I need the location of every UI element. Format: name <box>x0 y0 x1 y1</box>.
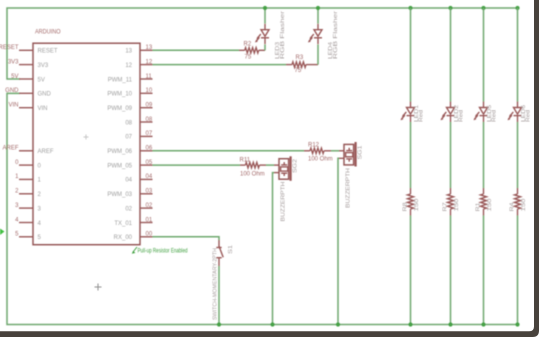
svg-text:5V: 5V <box>38 77 45 83</box>
pin AREF (left) <box>2 146 53 156</box>
svg-text:PWM_09: PWM_09 <box>107 106 132 112</box>
resistor R7 <box>448 188 454 216</box>
svg-text:100 Ohm: 100 Ohm <box>308 157 333 163</box>
wire R7 to GND rail <box>450 216 452 325</box>
wire R12 to SG1 <box>331 150 339 152</box>
resistor R3 <box>286 62 318 67</box>
svg-text:150: 150 <box>487 199 493 212</box>
net marker (left edge) <box>0 229 5 236</box>
wire LED6 to R4 <box>517 122 519 188</box>
wire LED5 to R1 <box>483 122 485 188</box>
svg-text:12: 12 <box>146 59 153 65</box>
pin 11 (right) <box>108 74 153 84</box>
wire SG2 to GND rail <box>273 173 275 325</box>
svg-text:AREF: AREF <box>38 149 54 155</box>
svg-text:08: 08 <box>146 117 153 123</box>
svg-text:150: 150 <box>414 199 420 212</box>
svg-text:RGB Flasher: RGB Flasher <box>333 11 339 59</box>
wire R1 to GND rail <box>483 216 485 325</box>
svg-text:04: 04 <box>146 174 153 180</box>
svg-text:R3: R3 <box>296 55 304 61</box>
svg-text:AREF: AREF <box>2 146 18 152</box>
junction R7 gnd <box>448 322 452 326</box>
pin 3 (left) <box>15 203 41 213</box>
wire rail to LED5 <box>483 8 485 102</box>
pin 1 (left) <box>15 174 41 184</box>
pin 05 (right) <box>107 160 153 170</box>
LED LED6 <box>508 102 522 123</box>
pin 01 (right) <box>114 217 153 227</box>
resistor R2 <box>239 48 265 53</box>
wire 5V rail <box>7 8 518 79</box>
wire LED2 to R7 <box>450 122 452 188</box>
svg-text:BUZZERPTH: BUZZERPTH <box>346 168 352 208</box>
junction SG1 gnd <box>336 322 340 326</box>
svg-text:PWM_06: PWM_06 <box>107 149 132 155</box>
svg-text:75: 75 <box>295 68 302 74</box>
wire pin06 to R12 <box>153 150 305 152</box>
pin 4 (left) <box>15 217 41 227</box>
svg-text:GND: GND <box>5 88 19 94</box>
wire R8 to GND rail <box>410 216 412 325</box>
svg-text:3V3: 3V3 <box>38 63 49 69</box>
IC ARDUINO body <box>33 43 140 245</box>
pin 3V3 (left) <box>8 59 49 69</box>
switch S1 <box>216 240 223 266</box>
wire pin13 to R2 <box>153 49 240 51</box>
svg-text:RGB Flasher: RGB Flasher <box>280 11 286 59</box>
junction LED4 rail <box>316 6 320 10</box>
svg-text:11: 11 <box>146 74 153 80</box>
svg-text:Red: Red <box>459 110 465 122</box>
wire S1 to GND rail <box>218 266 220 325</box>
svg-text:04: 04 <box>125 178 132 184</box>
junction R1 gnd <box>481 322 485 326</box>
LED LED5 <box>474 102 488 123</box>
svg-text:3V3: 3V3 <box>8 59 19 65</box>
svg-text:13: 13 <box>146 45 153 51</box>
pin 5V (left) <box>11 74 45 84</box>
wire R2 to LED3 <box>264 45 266 51</box>
LED LED2 <box>441 102 455 123</box>
junction LED5 rail <box>481 6 485 10</box>
junction SG2 gnd <box>270 322 274 326</box>
pin 03 (right) <box>107 189 153 199</box>
svg-text:RX_00: RX_00 <box>114 235 133 241</box>
svg-text:R11: R11 <box>240 157 251 163</box>
svg-text:R12: R12 <box>308 143 320 149</box>
svg-text:03: 03 <box>146 189 153 195</box>
svg-text:PWM_05: PWM_05 <box>107 163 132 169</box>
svg-text:00: 00 <box>146 232 153 238</box>
svg-text:R8: R8 <box>402 203 408 212</box>
svg-text:02: 02 <box>146 203 153 209</box>
wire SG1 to GND rail <box>338 158 339 324</box>
wire rail to LED2 <box>450 8 452 102</box>
svg-text:07: 07 <box>146 131 153 137</box>
wire rail to LED6 <box>517 8 519 102</box>
svg-text:R2: R2 <box>244 42 252 48</box>
svg-text:VIN: VIN <box>38 106 48 112</box>
resistor R4 <box>515 188 521 216</box>
svg-text:BUZZERPTH: BUZZERPTH <box>281 181 287 221</box>
wire R4 to GND rail <box>517 216 519 325</box>
pin 09 (right) <box>107 103 153 113</box>
wire LED4 to rail <box>317 8 319 24</box>
junction LED2 rail <box>448 6 452 10</box>
buzzer SG1 <box>339 142 356 167</box>
svg-text:150: 150 <box>454 199 460 212</box>
svg-text:13: 13 <box>125 49 132 55</box>
svg-text:150: 150 <box>521 199 527 212</box>
pin 10 (right) <box>107 88 153 98</box>
wire R3 to LED4 <box>317 45 319 65</box>
svg-text:R4: R4 <box>509 203 515 212</box>
svg-text:07: 07 <box>125 135 132 141</box>
svg-text:S1: S1 <box>228 245 234 254</box>
svg-text:100 Ohm: 100 Ohm <box>240 171 265 177</box>
junction S1 gnd <box>217 322 221 326</box>
pin 13 (right) <box>125 45 153 55</box>
svg-text:05: 05 <box>146 160 153 166</box>
svg-text:5V: 5V <box>11 74 18 80</box>
pin 08 (right) <box>125 117 153 127</box>
pin VIN (left) <box>8 103 47 113</box>
svg-text:SG2: SG2 <box>293 159 299 173</box>
LED LED3 <box>255 24 269 45</box>
svg-text:VIN: VIN <box>8 103 18 109</box>
svg-text:75: 75 <box>245 55 252 61</box>
junction LED3 rail <box>263 6 267 10</box>
svg-text:Pull-up Resistor Enabled: Pull-up Resistor Enabled <box>138 247 188 254</box>
wire rail to LED1 <box>410 8 412 102</box>
LED LED1 <box>401 102 415 123</box>
pin 12 (right) <box>125 59 153 69</box>
wire pin00 to S1 <box>153 237 220 240</box>
svg-text:02: 02 <box>125 206 132 212</box>
svg-text:06: 06 <box>146 146 153 152</box>
pin 0 (left) <box>15 160 41 170</box>
pin 00 (right) <box>114 232 153 242</box>
junction R8 gnd <box>408 322 412 326</box>
svg-text:PWM_11: PWM_11 <box>108 77 133 83</box>
wire GND rail <box>7 93 518 324</box>
wire LED3 to rail <box>264 8 266 24</box>
resistor R12 <box>304 148 331 153</box>
svg-text:Red: Red <box>526 110 532 122</box>
pin 07 (right) <box>125 131 153 141</box>
svg-text:Red: Red <box>492 110 498 122</box>
buzzer SG2 <box>274 156 291 181</box>
origin cross (IC) <box>84 135 89 140</box>
wire R11 to SG2 <box>266 164 274 166</box>
origin cross (S1) <box>95 284 102 291</box>
wire LED1 to R8 <box>410 122 412 188</box>
junction LED6 rail <box>515 6 519 10</box>
pin 02 (right) <box>125 203 153 213</box>
svg-text:SWITCH-MOMENTARY-2PTH: SWITCH-MOMENTARY-2PTH <box>213 248 219 320</box>
annotation arrow <box>132 247 137 254</box>
wire pin05 to R11 <box>153 164 241 166</box>
svg-text:PWM_10: PWM_10 <box>107 92 132 98</box>
pin 06 (right) <box>107 146 153 156</box>
svg-text:12: 12 <box>125 63 132 69</box>
wire pin12 to R3 <box>153 64 287 66</box>
svg-text:R1: R1 <box>475 203 481 212</box>
svg-text:Red: Red <box>419 110 425 122</box>
pin 2 (left) <box>15 189 41 199</box>
pin GND (left) <box>5 88 51 98</box>
svg-text:08: 08 <box>125 120 132 126</box>
svg-text:GND: GND <box>38 92 52 98</box>
pin 5 (left) <box>15 232 41 242</box>
svg-text:10: 10 <box>146 88 153 94</box>
LED LED4 <box>308 24 322 45</box>
svg-text:TX_01: TX_01 <box>114 221 132 227</box>
junction R4 gnd <box>515 322 519 326</box>
svg-text:R7: R7 <box>442 203 448 212</box>
svg-text:01: 01 <box>146 217 153 223</box>
svg-text:09: 09 <box>146 103 153 109</box>
resistor R11 <box>240 162 266 167</box>
pin RESET (left) <box>0 45 58 55</box>
resistor R8 <box>408 188 414 216</box>
pin 04 (right) <box>125 174 153 184</box>
svg-text:RESET: RESET <box>0 45 19 51</box>
resistor R1 <box>481 188 487 216</box>
junction LED1 rail <box>408 6 412 10</box>
svg-text:SG1: SG1 <box>358 146 364 160</box>
svg-text:ARDUINO: ARDUINO <box>35 29 61 36</box>
svg-text:PWM_03: PWM_03 <box>107 192 132 198</box>
svg-text:RESET: RESET <box>38 49 58 55</box>
